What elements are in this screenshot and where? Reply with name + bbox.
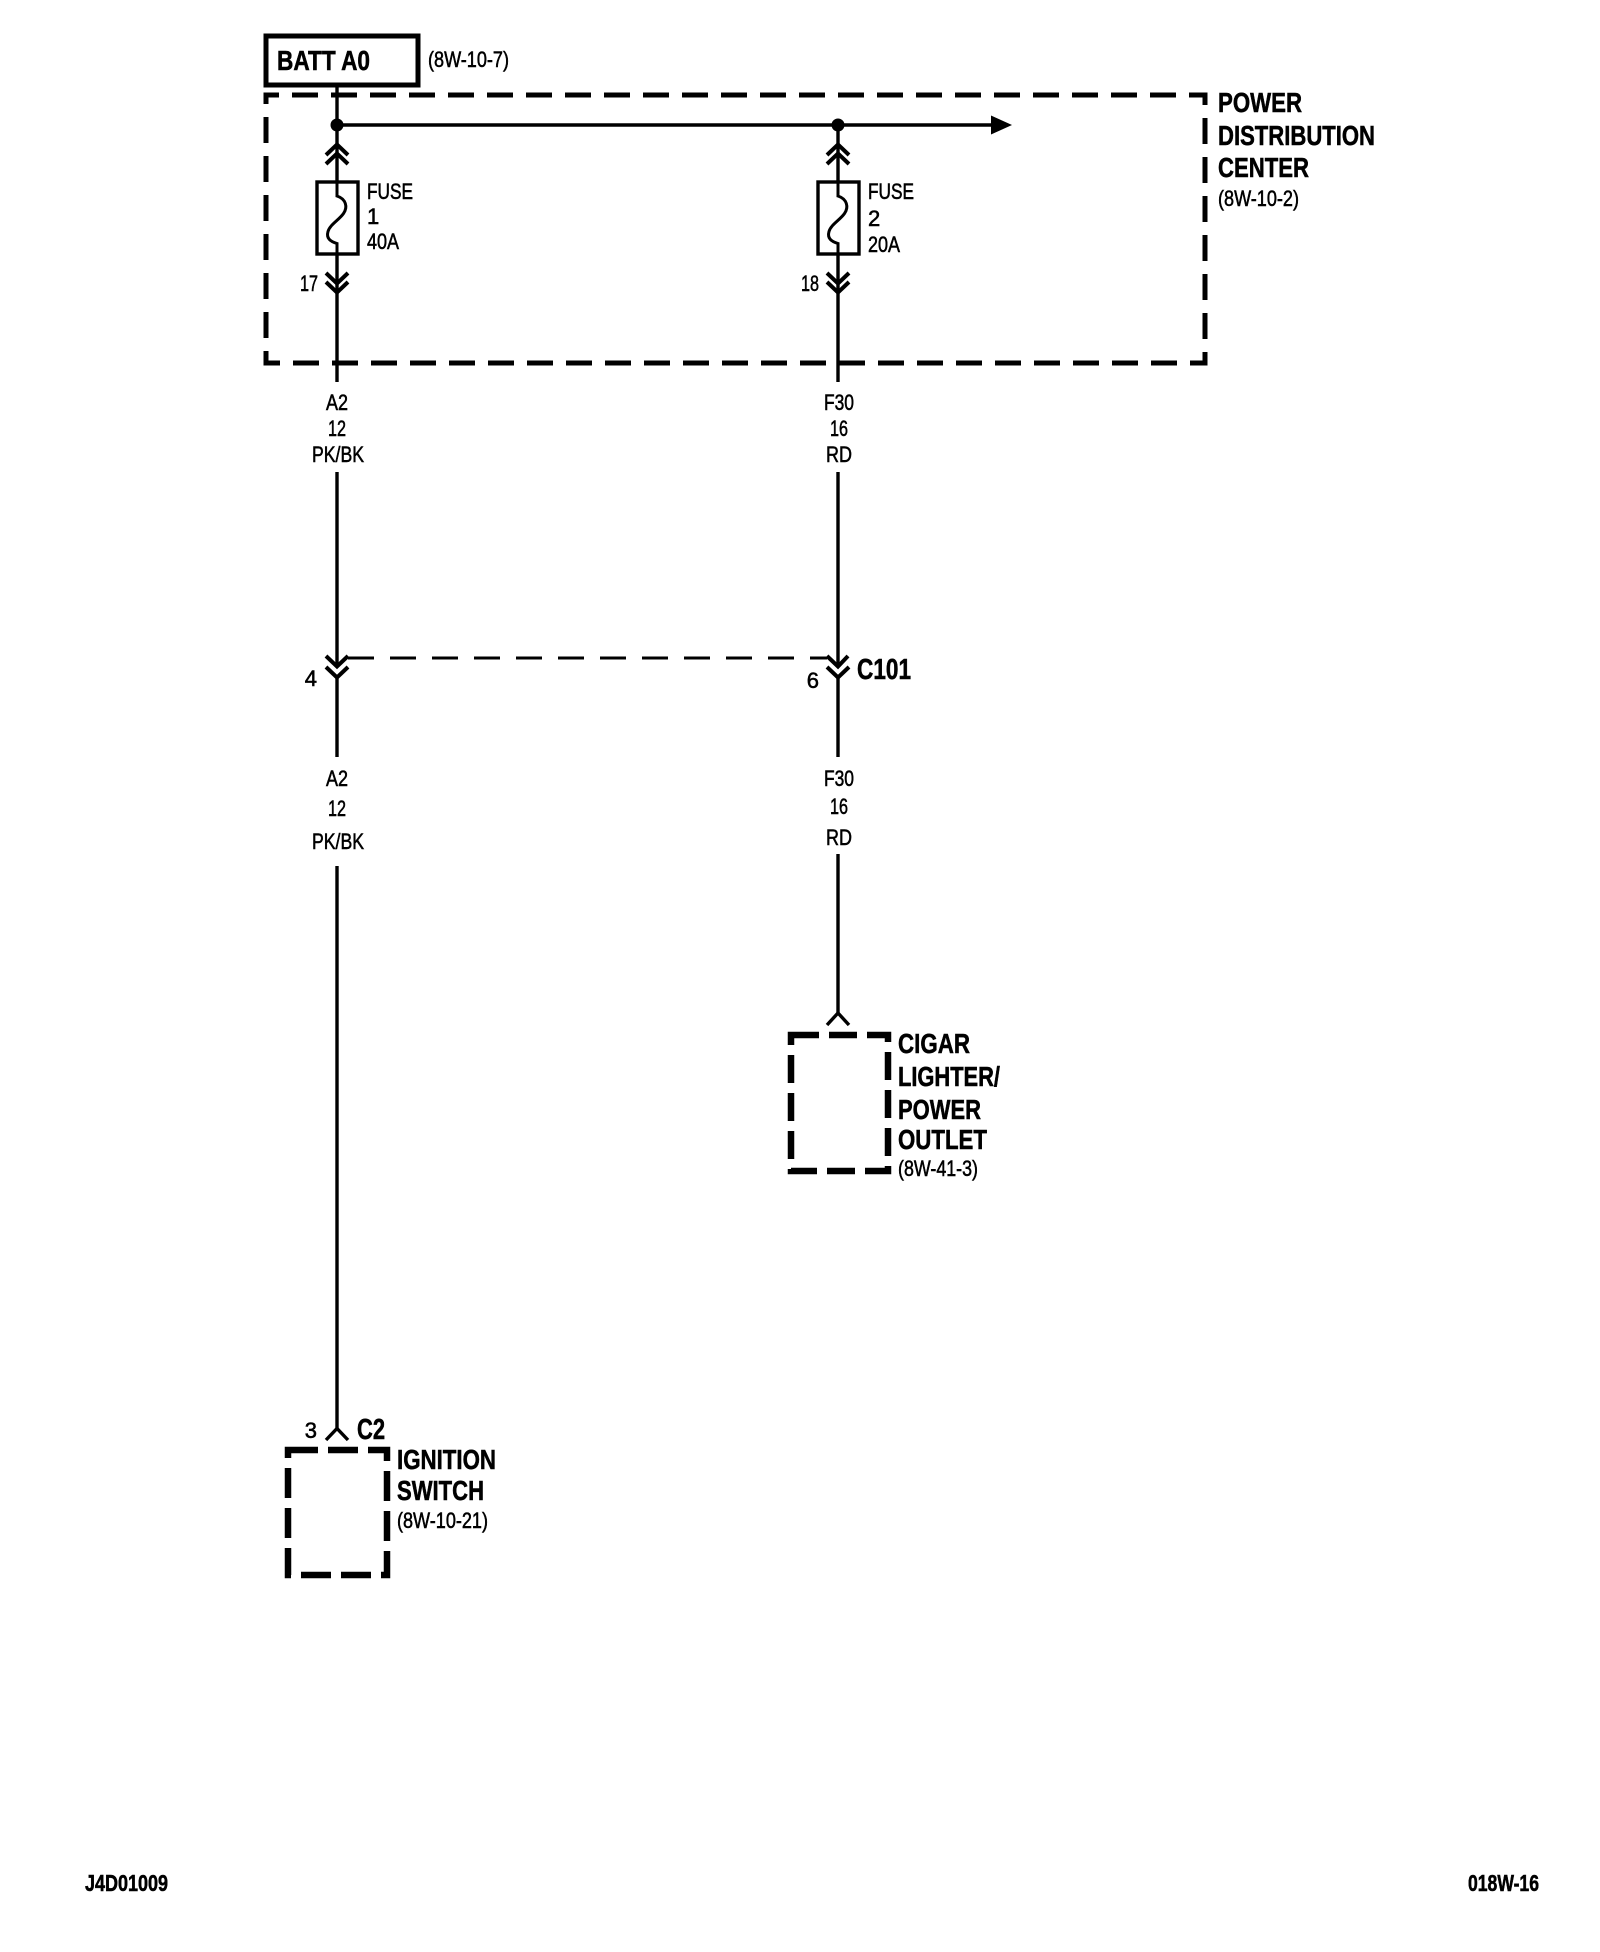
wire fuse 1 to pin 17 bbox=[335, 254, 338, 382]
svg-text:FUSE: FUSE bbox=[868, 179, 914, 204]
svg-text:1: 1 bbox=[367, 204, 379, 229]
svg-text:6: 6 bbox=[807, 668, 819, 693]
svg-text:F30: F30 bbox=[824, 390, 854, 415]
label POWER DISTRIBUTION CENTER (8W-10-2) bbox=[1218, 87, 1375, 211]
wire label F30 16 RD lower bbox=[824, 766, 854, 850]
svg-text:RD: RD bbox=[826, 825, 852, 850]
wire C101 pin 6 down bbox=[836, 677, 839, 757]
wire RD down to cigar lighter bbox=[836, 854, 839, 1013]
svg-text:4: 4 bbox=[305, 666, 317, 691]
svg-text:20A: 20A bbox=[868, 232, 900, 257]
power distribution center dashed box bbox=[266, 95, 1205, 363]
wire junction to fuse 1 bbox=[335, 125, 338, 182]
wire label F30 16 RD upper bbox=[824, 390, 854, 467]
wire F30 to C101 pin 6 bbox=[836, 472, 839, 665]
svg-text:40A: 40A bbox=[367, 229, 399, 254]
svg-text:PK/BK: PK/BK bbox=[312, 442, 364, 467]
svg-text:C101: C101 bbox=[857, 654, 911, 686]
wire junction to fuse 2 bbox=[836, 125, 839, 182]
label CIGAR LIGHTER/POWER OUTLET (8W-41-3) bbox=[898, 1028, 1000, 1181]
wire label A2 12 PK/BK lower bbox=[312, 766, 364, 854]
cigar lighter dashed box bbox=[791, 1035, 888, 1171]
svg-text:RD: RD bbox=[826, 442, 852, 467]
svg-text:12: 12 bbox=[328, 416, 346, 441]
wire PK/BK down to C2 bbox=[335, 866, 338, 1429]
svg-text:A2: A2 bbox=[326, 390, 348, 415]
svg-text:3: 3 bbox=[305, 1418, 317, 1443]
svg-text:(8W-10-7): (8W-10-7) bbox=[428, 47, 509, 72]
C101 pin 6 chevrons bbox=[827, 656, 849, 678]
node junction dot at fuse 1 bbox=[331, 119, 344, 132]
fuse F2 bbox=[818, 182, 859, 254]
connector Y at C2 bbox=[326, 1429, 348, 1441]
connector chevrons into fuse 2 bbox=[827, 145, 849, 165]
svg-text:2: 2 bbox=[868, 206, 880, 231]
connector C101 dashed link bbox=[348, 657, 827, 660]
wire C101 pin 4 down bbox=[335, 677, 338, 757]
svg-text:F30: F30 bbox=[824, 766, 854, 791]
ignition switch dashed box bbox=[288, 1450, 387, 1575]
svg-text:IGNITION: IGNITION bbox=[397, 1444, 496, 1475]
pin 17 chevrons bbox=[326, 273, 348, 293]
svg-text:PK/BK: PK/BK bbox=[312, 829, 364, 854]
svg-text:16: 16 bbox=[830, 416, 848, 441]
fuse F1 bbox=[317, 182, 358, 254]
svg-text:OUTLET: OUTLET bbox=[898, 1124, 987, 1155]
svg-text:(8W-41-3): (8W-41-3) bbox=[898, 1156, 978, 1181]
connector chevrons into fuse 1 bbox=[326, 145, 348, 165]
svg-text:18: 18 bbox=[801, 271, 819, 296]
connector Y at cigar lighter bbox=[827, 1013, 849, 1025]
wire horizontal bus with arrow bbox=[337, 116, 1012, 135]
svg-text:12: 12 bbox=[328, 796, 346, 821]
wire label A2 12 PK/BK upper bbox=[312, 390, 364, 467]
label IGNITION SWITCH (8W-10-21) bbox=[397, 1444, 496, 1533]
svg-text:BATT A0: BATT A0 bbox=[277, 45, 370, 76]
pin 18 chevrons bbox=[827, 273, 849, 293]
node junction dot at fuse 2 bbox=[832, 119, 845, 132]
label FUSE 1 40A bbox=[367, 179, 413, 254]
wire A2 to C101 pin 4 bbox=[335, 472, 338, 665]
svg-text:A2: A2 bbox=[326, 766, 348, 791]
svg-text:POWER: POWER bbox=[1218, 87, 1302, 118]
svg-text:CIGAR: CIGAR bbox=[898, 1028, 970, 1059]
wire BATT A0 to junction bbox=[335, 85, 338, 125]
svg-text:16: 16 bbox=[830, 794, 848, 819]
svg-text:J4D01009: J4D01009 bbox=[85, 1870, 168, 1896]
svg-text:FUSE: FUSE bbox=[367, 179, 413, 204]
svg-text:C2: C2 bbox=[357, 1414, 385, 1446]
svg-text:POWER: POWER bbox=[898, 1094, 981, 1125]
svg-text:17: 17 bbox=[300, 271, 318, 296]
node BATT A0 feed box bbox=[266, 36, 418, 85]
svg-text:(8W-10-21): (8W-10-21) bbox=[397, 1508, 488, 1533]
wire fuse 2 to pin 18 bbox=[836, 254, 839, 382]
svg-text:018W-16: 018W-16 bbox=[1468, 1870, 1539, 1896]
C101 pin 4 chevrons bbox=[326, 656, 348, 678]
svg-text:(8W-10-2): (8W-10-2) bbox=[1218, 186, 1299, 211]
svg-text:SWITCH: SWITCH bbox=[397, 1475, 484, 1506]
label FUSE 2 20A bbox=[868, 179, 914, 257]
svg-text:CENTER: CENTER bbox=[1218, 152, 1309, 183]
svg-text:LIGHTER/: LIGHTER/ bbox=[898, 1061, 1000, 1092]
svg-text:DISTRIBUTION: DISTRIBUTION bbox=[1218, 120, 1375, 151]
